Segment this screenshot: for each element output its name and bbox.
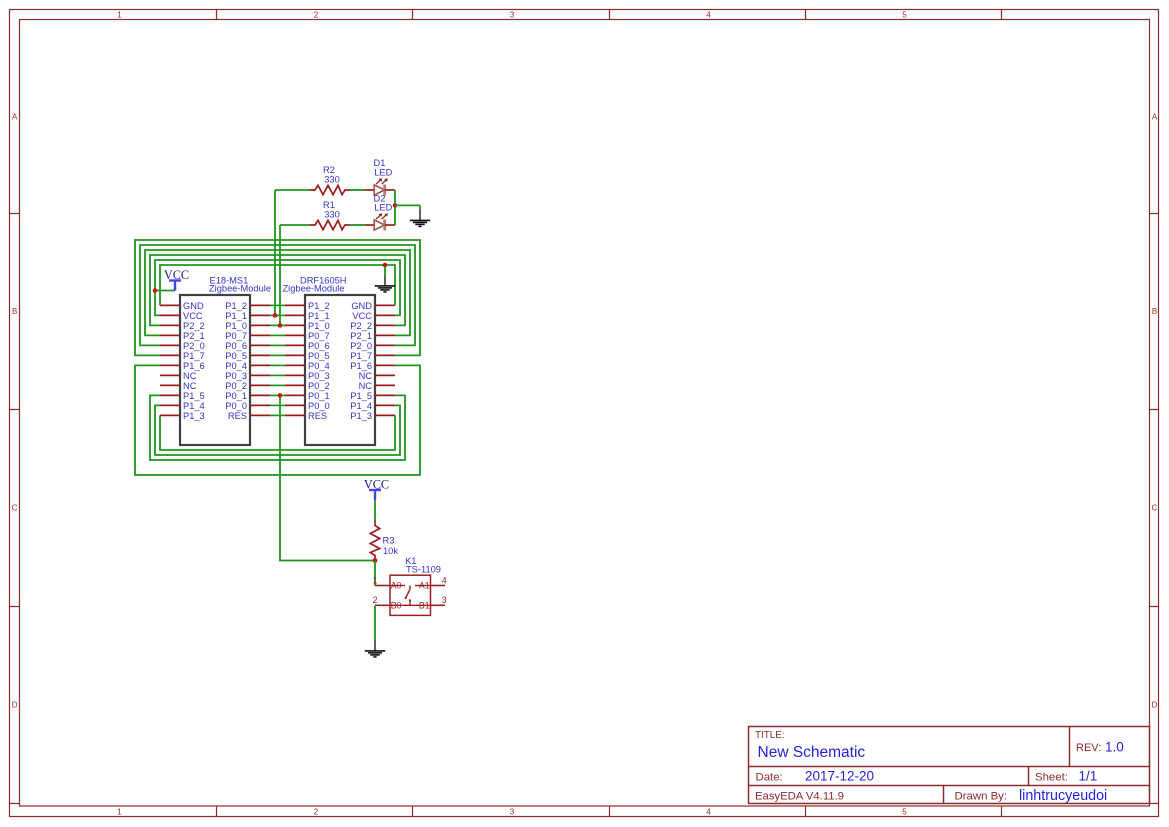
svg-text:EasyEDA V4.11.9: EasyEDA V4.11.9 [755, 791, 844, 803]
svg-text:P1_5: P1_5 [350, 391, 372, 401]
svg-text:1/1: 1/1 [1079, 769, 1098, 784]
svg-text:3: 3 [510, 808, 515, 817]
svg-text:R2: R2 [323, 165, 335, 175]
svg-text:P0_3: P0_3 [225, 371, 247, 381]
svg-text:P1_2: P1_2 [225, 301, 247, 311]
svg-text:P1_1: P1_1 [308, 311, 330, 321]
svg-text:1.0: 1.0 [1105, 740, 1124, 755]
svg-text:4: 4 [706, 808, 711, 817]
svg-text:P2_1: P2_1 [350, 331, 372, 341]
svg-text:5: 5 [902, 808, 907, 817]
svg-text:VCC: VCC [352, 311, 372, 321]
svg-text:P0_1: P0_1 [225, 391, 247, 401]
svg-text:TS-1109: TS-1109 [406, 564, 441, 574]
svg-text:P1_7: P1_7 [183, 351, 205, 361]
svg-text:R1: R1 [323, 200, 335, 210]
svg-text:C: C [12, 504, 18, 513]
svg-text:P0_0: P0_0 [225, 401, 247, 411]
svg-text:B0: B0 [391, 600, 402, 610]
svg-text:P2_0: P2_0 [350, 341, 372, 351]
svg-text:D: D [12, 700, 18, 709]
svg-text:REV:: REV: [1076, 742, 1101, 754]
svg-text:VCC: VCC [183, 311, 203, 321]
svg-text:P1_0: P1_0 [225, 321, 247, 331]
svg-text:P0_5: P0_5 [225, 351, 247, 361]
svg-text:P0_7: P0_7 [308, 331, 330, 341]
svg-text:P0_5: P0_5 [308, 351, 330, 361]
svg-text:New Schematic: New Schematic [758, 744, 866, 761]
svg-text:P1_4: P1_4 [350, 401, 372, 411]
svg-text:B: B [12, 307, 17, 316]
svg-text:Drawn By:: Drawn By: [955, 791, 1008, 803]
svg-text:P0_3: P0_3 [308, 371, 330, 381]
svg-text:D: D [1152, 700, 1158, 709]
svg-text:P0_7: P0_7 [225, 331, 247, 341]
svg-text:1: 1 [117, 808, 122, 817]
svg-text:NC: NC [183, 381, 197, 391]
svg-text:4: 4 [706, 11, 711, 20]
svg-text:P0_2: P0_2 [308, 381, 330, 391]
svg-text:P1_2: P1_2 [308, 301, 330, 311]
svg-text:P1_3: P1_3 [183, 411, 205, 421]
svg-text:P0_6: P0_6 [308, 341, 330, 351]
svg-text:VCC: VCC [164, 268, 189, 282]
svg-text:P1_1: P1_1 [225, 311, 247, 321]
svg-text:A: A [1152, 112, 1158, 121]
svg-text:C: C [1152, 504, 1158, 513]
svg-text:2: 2 [314, 11, 319, 20]
svg-text:3: 3 [510, 11, 515, 20]
svg-text:330: 330 [324, 210, 340, 220]
svg-text:1: 1 [117, 11, 122, 20]
svg-text:NC: NC [359, 371, 373, 381]
svg-text:330: 330 [324, 174, 340, 184]
svg-text:P2_0: P2_0 [183, 341, 205, 351]
svg-text:P0_4: P0_4 [308, 361, 330, 371]
svg-text:Sheet:: Sheet: [1035, 772, 1068, 784]
svg-text:LED: LED [374, 203, 392, 213]
svg-text:P0_2: P0_2 [225, 381, 247, 391]
svg-text:2: 2 [373, 595, 378, 605]
svg-text:Date:: Date: [756, 772, 783, 784]
svg-text:VCC: VCC [364, 478, 389, 492]
svg-text:P0_4: P0_4 [225, 361, 247, 371]
svg-text:2017-12-20: 2017-12-20 [805, 769, 874, 784]
svg-text:B1: B1 [419, 600, 430, 610]
svg-text:P1_7: P1_7 [350, 351, 372, 361]
svg-text:GND: GND [183, 301, 204, 311]
svg-text:P0_6: P0_6 [225, 341, 247, 351]
svg-text:NC: NC [183, 371, 197, 381]
svg-text:R3: R3 [383, 535, 395, 545]
svg-text:1: 1 [373, 575, 378, 585]
svg-text:P2_1: P2_1 [183, 331, 205, 341]
svg-text:A0: A0 [391, 581, 402, 591]
svg-text:P1_4: P1_4 [183, 401, 205, 411]
svg-text:3: 3 [442, 595, 447, 605]
svg-text:linhtrucyeudoi: linhtrucyeudoi [1019, 788, 1107, 804]
svg-text:P0_1: P0_1 [308, 391, 330, 401]
svg-text:B: B [1152, 307, 1157, 316]
svg-text:P2_2: P2_2 [183, 321, 205, 331]
svg-text:NC: NC [359, 381, 373, 391]
svg-text:10k: 10k [383, 546, 398, 556]
svg-text:A: A [12, 112, 18, 121]
svg-text:P1_6: P1_6 [183, 361, 205, 371]
svg-text:TITLE:: TITLE: [755, 730, 785, 741]
svg-text:P1_5: P1_5 [183, 391, 205, 401]
svg-text:5: 5 [902, 11, 907, 20]
svg-text:RES: RES [228, 411, 247, 421]
svg-text:RES: RES [308, 411, 327, 421]
svg-text:P1_0: P1_0 [308, 321, 330, 331]
svg-text:P1_3: P1_3 [350, 411, 372, 421]
svg-text:LED: LED [374, 167, 392, 177]
svg-text:P1_6: P1_6 [350, 361, 372, 371]
svg-text:P2_2: P2_2 [350, 321, 372, 331]
svg-text:GND: GND [351, 301, 372, 311]
svg-text:P0_0: P0_0 [308, 401, 330, 411]
svg-text:Zigbee-Module: Zigbee-Module [209, 284, 271, 294]
svg-text:4: 4 [442, 575, 447, 585]
svg-text:Zigbee-Module: Zigbee-Module [283, 284, 345, 294]
svg-text:A1: A1 [419, 581, 430, 591]
svg-text:2: 2 [314, 808, 319, 817]
